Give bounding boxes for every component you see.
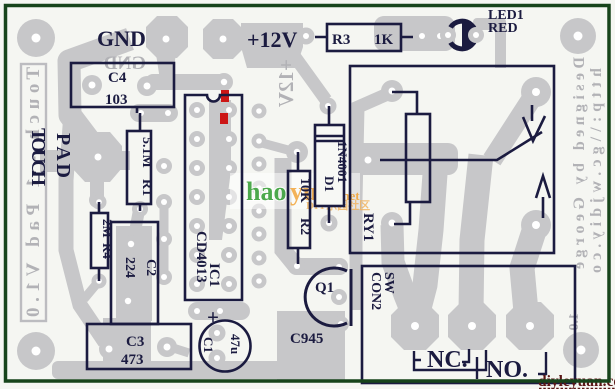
relay RY1 pad NO: [521, 210, 551, 240]
capacitor C3 pad left: [99, 339, 119, 359]
net label version (bottom copper, mirrored): [567, 313, 582, 331]
transistor Q1 pad bottom: [333, 316, 349, 332]
resistor R4: [91, 202, 115, 281]
diode D1 pad top: [320, 98, 337, 115]
node pad below touch pad: [89, 192, 105, 208]
IC1 pads right column: [221, 102, 237, 292]
svg-text:TOUCH: TOUCH: [27, 128, 49, 186]
svg-text:+12V: +12V: [274, 59, 298, 107]
wire +12V pour: [241, 23, 303, 68]
wire touch pad to R4: [90, 180, 104, 199]
svg-text:5.1M: 5.1M: [139, 137, 154, 168]
capacitor C3: [87, 324, 191, 369]
resistor R3: [315, 24, 413, 51]
svg-text:IC1: IC1: [206, 263, 222, 287]
svg-text:C2: C2: [143, 259, 158, 276]
diode D1: [315, 106, 350, 223]
wire touch pad to R1: [116, 151, 130, 170]
wire relay to CON2 center: [471, 155, 481, 312]
svg-text:NO.: NO.: [486, 357, 528, 383]
wire LED to relay: [473, 18, 506, 30]
transistor Q1 pad middle: [331, 289, 347, 305]
wire bottom copper band: [52, 361, 344, 379]
wire R2 bottom to Q1 base: [288, 258, 348, 275]
node R2 bottom pad: [289, 258, 305, 274]
wire relay coil2 to CON2 left: [392, 225, 413, 315]
node pad IC1 feed: [160, 105, 176, 121]
capacitor C1 electrolytic: [200, 305, 251, 372]
wire relay NO to CON2 right: [522, 228, 535, 312]
node pad below IC1 right: [212, 303, 228, 319]
relay RY1 pad coil top: [381, 80, 403, 102]
svg-text:SW: SW: [381, 272, 396, 294]
svg-text:47u: 47u: [228, 334, 243, 354]
transistor Q1 C945: [290, 268, 351, 347]
svg-text:R2: R2: [297, 218, 312, 235]
net label +12V (bottom copper, mirrored): [274, 59, 298, 107]
wire pad row below C4: [130, 104, 178, 122]
touch pad octagon: [72, 132, 122, 182]
relay coil: [406, 114, 430, 202]
wire mid vertical to Q1: [283, 158, 296, 266]
mounting hole top-right: [560, 18, 596, 54]
relay RY1 pad coil bottom: [381, 212, 403, 234]
IC1 interior copper band: [209, 100, 231, 240]
capacitor C1 pads: [209, 325, 226, 367]
svg-text:10K: 10K: [297, 178, 312, 203]
svg-text:C4: C4: [108, 70, 127, 86]
relay RY1 pad NC: [521, 77, 551, 107]
svg-text:RY1: RY1: [360, 213, 376, 242]
svg-text:D1: D1: [322, 176, 337, 192]
svg-text:C945: C945: [290, 331, 323, 347]
svg-text:1K: 1K: [374, 32, 394, 48]
node pad above IC1: [215, 73, 233, 91]
svg-text:Q1: Q1: [315, 280, 334, 296]
node pad R1 top: [133, 105, 149, 121]
capacitor C2: [111, 222, 158, 324]
relay RY1 pad common: [357, 149, 379, 171]
resistor R1: [127, 113, 154, 211]
wire R1 bottom to C2: [133, 205, 140, 242]
wire relay NC diagonal: [492, 95, 534, 160]
relay NC contact arrow: [531, 105, 534, 121]
+12V octagon pad: [203, 19, 243, 59]
connector CON2: [362, 266, 575, 383]
red pin1 marks IC1: [220, 90, 229, 124]
node pad R3 right: [414, 28, 431, 45]
capacitor C4: [71, 63, 174, 107]
mounting hole top-left: [17, 19, 55, 57]
node pads right of IC1: [252, 104, 267, 289]
svg-text:224: 224: [122, 257, 137, 278]
svg-text:103: 103: [105, 92, 128, 108]
LED LED1: [440, 8, 524, 49]
svg-text:PAD: PAD: [52, 133, 74, 178]
svg-text:+: +: [207, 305, 219, 329]
capacitor C4 pad right: [137, 76, 157, 96]
node R2 top pad: [286, 141, 308, 163]
wire R3 right to LED: [374, 16, 455, 51]
wire +12V to D1: [295, 57, 326, 100]
Q1 copper pour: [277, 311, 345, 380]
wire relay common band: [352, 143, 458, 175]
net label Touch-1Pad box (bottom copper): [21, 64, 46, 321]
svg-text:R1: R1: [139, 179, 154, 196]
wire relay coil to Q1 collector: [356, 93, 390, 310]
node pads left of IC1: [156, 158, 172, 285]
resistor R2: [288, 152, 312, 264]
svg-text:1N4001: 1N4001: [335, 141, 350, 183]
svg-text:+12V: +12V: [247, 27, 298, 52]
net label GND (bottom copper, mirrored): [104, 53, 146, 74]
wire R2 top link: [262, 143, 288, 150]
svg-text:RED: RED: [488, 21, 518, 36]
wire IC1 bottom pads to C1: [188, 302, 250, 320]
capacitor C2 pad top: [122, 235, 140, 253]
resistor R4 pad bottom: [92, 274, 107, 289]
node pad R3 left: [298, 28, 315, 45]
svg-text:473: 473: [121, 352, 144, 368]
CON2 octagon pad 1: [391, 302, 439, 350]
net label url (bottom copper, mirrored): [588, 68, 605, 273]
mounting hole bottom-left: [17, 332, 55, 370]
node pad R1 bottom: [132, 201, 148, 217]
diode D1 pad bottom: [321, 215, 338, 232]
relay NO contact arrow: [542, 197, 545, 218]
capacitor C3 pad right: [157, 337, 177, 357]
wire R4 bottom to left trace: [84, 281, 99, 299]
node pad below IC1 left: [189, 303, 205, 319]
wire C3 right pad stub: [170, 347, 189, 353]
mounting hole bottom-right: [563, 332, 599, 368]
relay RY1: [350, 66, 554, 253]
capacitor C2 pad bottom: [119, 292, 137, 310]
CON2 octagon pad 2: [448, 302, 496, 350]
svg-text:hao: hao: [246, 177, 286, 206]
wire GND pour top-left down to touch pad: [69, 39, 130, 148]
svg-text:Designed by George: Designed by George: [571, 57, 588, 269]
wire common band corner to CON2 pad1: [418, 160, 436, 312]
watermark haoyu.net white halo: [230, 173, 360, 209]
wire C2 side pads link: [160, 200, 169, 277]
node pad LED feed: [432, 28, 449, 45]
transistor Q1 pad base: [331, 259, 347, 275]
svg-text:CON2: CON2: [368, 272, 383, 310]
IC1 pads left column: [189, 102, 205, 292]
relay switch common: [380, 132, 542, 160]
svg-text:C3: C3: [126, 334, 144, 350]
net label Designed by George (bottom copper, mirrored): [571, 57, 588, 269]
capacitor C2 interior copper: [116, 226, 152, 321]
IC U1 CD4013: [185, 95, 242, 300]
resistor R4 pad top: [92, 195, 107, 210]
wire C3 interior band: [103, 318, 151, 367]
GND octagon pad: [146, 16, 188, 58]
svg-text:GND: GND: [97, 26, 146, 51]
svg-text:R4: R4: [100, 243, 115, 259]
CON2 octagon pad 3: [506, 302, 554, 350]
wire touch pad to label box: [40, 150, 74, 172]
wire GND octagon to signal band: [156, 54, 176, 80]
wire left vertical trace to C3: [66, 100, 105, 342]
capacitor C4 pad left: [82, 75, 102, 95]
svg-text:C1: C1: [201, 337, 216, 353]
wire C4 to IC pin band: [145, 74, 229, 90]
svg-text:R3: R3: [332, 32, 350, 48]
